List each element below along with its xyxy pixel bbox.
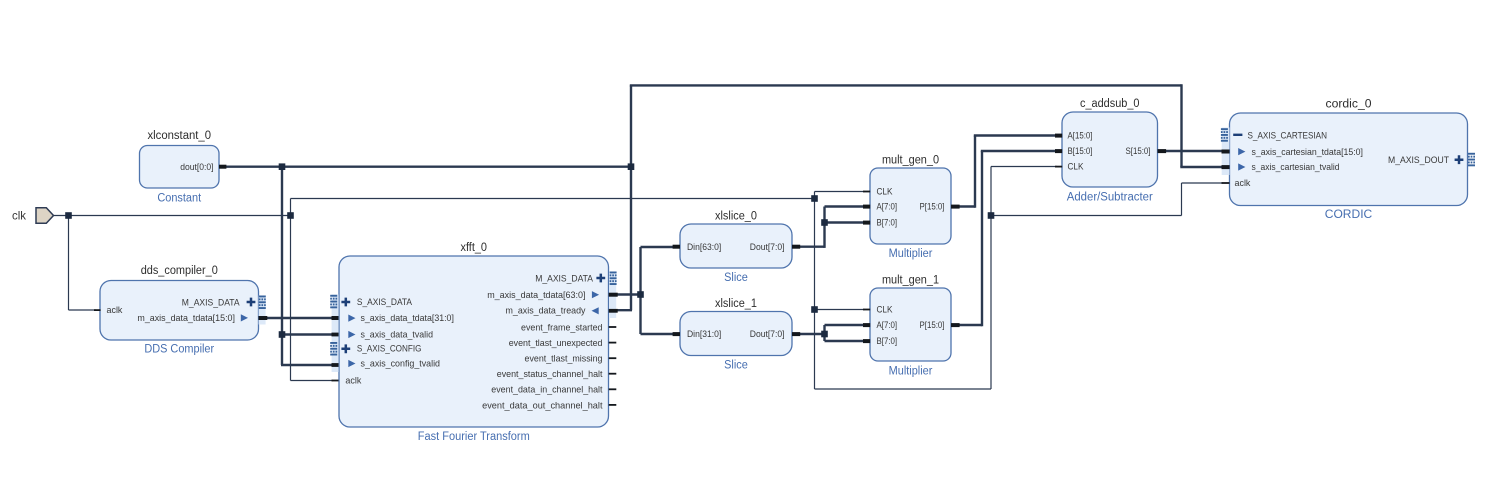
pin stub s_axis_data_tdata[31:0]	[332, 316, 339, 320]
pin stub A[7:0] (mult_gen_0)	[863, 205, 870, 209]
svg-text:mult_gen_0: mult_gen_0	[882, 155, 939, 167]
svg-text:B[15:0]: B[15:0]	[1068, 145, 1093, 156]
pin stub dout[0:0]	[219, 165, 226, 169]
collapse icon plus S_AXIS_CONFIG	[341, 344, 350, 353]
interface expand icon M_AXIS_DOUT	[1468, 153, 1475, 166]
input direction arrow s_axis_cartesian_tvalid	[1238, 163, 1245, 170]
wire net dout branch to xfft s_axis_data_tvalid	[282, 333, 333, 335]
svg-text:CORDIC: CORDIC	[1325, 209, 1373, 221]
junction net dout at (282,166.7)	[279, 163, 286, 170]
junction net dout at (631,166.7)	[628, 163, 635, 170]
svg-text:M_AXIS_DATA: M_AXIS_DATA	[182, 296, 240, 307]
IP block xlconstant_0 body	[140, 146, 220, 189]
wire net clk branch to cordic aclk	[1182, 182, 1224, 184]
expand icon minus S_AXIS_CARTESIAN	[1233, 134, 1242, 136]
svg-text:cordic_0: cordic_0	[1326, 99, 1372, 111]
svg-text:m_axis_data_tdata[63:0]: m_axis_data_tdata[63:0]	[487, 289, 585, 300]
svg-text:P[15:0]: P[15:0]	[920, 201, 945, 212]
svg-text:M_AXIS_DATA: M_AXIS_DATA	[535, 272, 593, 283]
svg-text:aclk: aclk	[107, 304, 123, 315]
pin stub event_tlast_missing	[609, 357, 617, 359]
pin stub CLK (mult_gen_0)	[863, 191, 870, 193]
input direction arrow s_axis_cartesian_tdata	[1238, 148, 1245, 155]
svg-text:S_AXIS_CONFIG: S_AXIS_CONFIG	[357, 343, 422, 354]
svg-text:S[15:0]: S[15:0]	[1126, 145, 1151, 156]
svg-text:Slice: Slice	[724, 272, 748, 284]
svg-text:s_axis_data_tvalid: s_axis_data_tvalid	[361, 328, 434, 339]
input direction arrow m_axis_data_tready	[592, 307, 599, 314]
pin stub m_axis_data_tdata[63:0]	[609, 293, 618, 297]
wire net xlslice_1 Dout to riser x=824.5	[798, 333, 825, 335]
svg-text:Constant: Constant	[157, 193, 202, 205]
wire net dout branch to xfft s_axis_config_tvalid	[281, 364, 333, 366]
interface expand icon M_AXIS_DATA (xfft)	[610, 272, 617, 286]
wire net clk branch to mult_gen_1 CLK	[815, 309, 866, 311]
svg-text:aclk: aclk	[345, 374, 361, 385]
pin stub A[15:0] (c_addsub_0)	[1055, 134, 1062, 138]
pin stub event_tlast_unexpected	[609, 342, 617, 344]
IP block xlslice_0 body	[680, 224, 792, 268]
svg-text:Fast Fourier Transform: Fast Fourier Transform	[418, 431, 530, 443]
pin stub CLK (c_addsub_0)	[1055, 166, 1062, 168]
wire net clk vertical x=290.5 (up to y=198.5 rail, down to xfft aclk)	[290, 199, 292, 381]
IP block dds_compiler_0 body	[100, 281, 259, 341]
wire net mult_gen_1 P to riser x=982	[956, 324, 982, 326]
wire net mult_gen_1 P riser x=982	[981, 151, 983, 326]
IP block cordic_0 body	[1230, 113, 1468, 206]
wire net dout vertical x=1181.5 down to cordic s_axis_cartesian_tvalid	[1180, 84, 1182, 167]
svg-text:S_AXIS_CARTESIAN: S_AXIS_CARTESIAN	[1248, 130, 1328, 141]
svg-text:aclk: aclk	[1235, 177, 1251, 188]
interface pin highlight strip M_AXIS (xfft right)	[609, 272, 616, 319]
svg-text:A[15:0]: A[15:0]	[1068, 130, 1093, 141]
svg-text:CLK: CLK	[1068, 161, 1085, 172]
svg-text:Din[63:0]: Din[63:0]	[687, 241, 721, 252]
junction net xlslice_0 Dout at (824.5,222.5)	[821, 219, 828, 226]
pin stub aclk	[94, 309, 101, 311]
wire net m_axis_data_tdata[15:0] dds to xfft	[263, 317, 333, 319]
svg-text:Multiplier: Multiplier	[889, 366, 933, 378]
wire net m_axis_data_tdata[63:0] branch to xlslice_1 Din	[641, 333, 675, 335]
wire net clk branch to mult_gen_0 CLK	[815, 191, 866, 193]
wire net xlslice_1 Dout riser x=824.5	[823, 325, 825, 341]
output direction arrow m_axis_data_tdata[63:0]	[592, 291, 599, 298]
wire net clk vertical x=814.5	[814, 192, 816, 390]
junction net dout at (282,334.5)	[279, 331, 286, 338]
wire net xlslice_0 Dout branch to mult_gen_0 B[7:0]	[825, 221, 866, 223]
wire net clk branch to c_addsub_0 CLK	[991, 166, 1057, 168]
wire net xlslice_0 Dout branch to mult_gen_0 A[7:0]	[825, 205, 866, 207]
wire net dout branch to cordic s_axis_cartesian_tvalid	[1180, 166, 1223, 168]
wire net xlslice_0 Dout riser x=824.5	[823, 207, 825, 248]
svg-text:Dout[7:0]: Dout[7:0]	[750, 328, 785, 339]
wire net dout top rail y=85	[630, 84, 1182, 86]
svg-text:Adder/Subtracter: Adder/Subtracter	[1067, 192, 1153, 204]
junction net m_axis_data_tdata[63:0] at (640.5,294.5)	[637, 291, 644, 298]
svg-text:c_addsub_0: c_addsub_0	[1080, 98, 1140, 110]
svg-text:xfft_0: xfft_0	[461, 242, 488, 254]
wire net clk vertical x=991 up to c_addsub_0 CLK	[990, 167, 992, 390]
pin stub m_axis_data_tready	[609, 309, 618, 313]
wire net mult_gen_0 P to riser x=975	[956, 205, 975, 207]
wire net dout branch to xfft m_axis_data_tready	[614, 309, 632, 311]
svg-text:event_data_out_channel_halt: event_data_out_channel_halt	[482, 399, 603, 410]
pin stub event_data_out_channel_halt	[609, 404, 617, 406]
wire net mult_gen_0 P riser x=975	[974, 136, 976, 208]
svg-text:event_tlast_missing: event_tlast_missing	[525, 353, 603, 364]
svg-text:S_AXIS_DATA: S_AXIS_DATA	[357, 296, 413, 307]
wire net dout vertical x=631 from top rail down to m_axis_data_tready	[630, 85, 632, 310]
junction net clk at (814.5,198.5)	[811, 195, 818, 202]
svg-text:s_axis_cartesian_tvalid: s_axis_cartesian_tvalid	[1252, 161, 1340, 172]
interface expand icon S_AXIS_CARTESIAN	[1221, 128, 1228, 142]
wire net mult_gen_1 P to c_addsub_0 B[15:0]	[981, 150, 1057, 152]
wire net m_axis_data_tdata[63:0] from xfft to junction	[614, 293, 641, 295]
svg-text:xlslice_1: xlslice_1	[715, 298, 757, 310]
wire net dout horizontal from xlconstant_0 dout to vertical x=631	[222, 165, 631, 167]
junction net clk at (991,215.5)	[988, 212, 995, 219]
pin stub event_data_in_channel_halt	[609, 388, 617, 390]
collapse icon plus M_AXIS_DATA	[247, 298, 256, 307]
wire net clk bottom rail y=389	[815, 388, 992, 390]
wire net clk from port to junction column x=290.5	[53, 215, 291, 217]
svg-text:M_AXIS_DOUT: M_AXIS_DOUT	[1388, 154, 1449, 165]
pin stub Dout[7:0] (xlslice_1)	[792, 332, 800, 336]
interface expand icon S_AXIS_CONFIG	[330, 342, 337, 356]
svg-text:DDS Compiler: DDS Compiler	[144, 344, 214, 356]
svg-text:Din[31:0]: Din[31:0]	[687, 328, 721, 339]
interface pin highlight strip M_AXIS_DATA	[259, 296, 266, 325]
svg-text:CLK: CLK	[877, 304, 894, 315]
pin stub P[15:0] (mult_gen_0)	[951, 205, 960, 209]
junction net xlslice_1 Dout at (824.5,334)	[821, 331, 828, 338]
wire net c_addsub_0 S to cordic s_axis_cartesian_tdata	[1163, 150, 1223, 152]
svg-text:B[7:0]: B[7:0]	[877, 217, 898, 228]
IP block xfft_0 body	[339, 256, 609, 427]
pin stub CLK (mult_gen_1)	[863, 309, 870, 311]
svg-text:event_tlast_unexpected: event_tlast_unexpected	[509, 337, 603, 348]
pin stub aclk (cordic_0)	[1222, 182, 1230, 184]
input direction arrow s_axis_data_tvalid	[348, 331, 355, 338]
wire net mult_gen_0 P to c_addsub_0 A[15:0]	[974, 134, 1057, 136]
wire net m_axis_data_tdata[63:0] branch to xlslice_0 Din	[641, 246, 675, 248]
IP block mult_gen_1 body	[870, 288, 951, 361]
wire net xlslice_0 Dout to riser x=824.5	[798, 245, 825, 247]
pin stub Din[63:0] (xlslice_0)	[673, 245, 680, 249]
wire net clk branch down to dds_compiler_0 aclk	[68, 216, 70, 311]
junction net clk at (290.5,215.5)	[287, 212, 294, 219]
svg-text:s_axis_data_tdata[31:0]: s_axis_data_tdata[31:0]	[361, 312, 454, 323]
collapse icon plus M_AXIS_DOUT	[1455, 155, 1464, 164]
interface pin highlight strip S_AXIS_CARTESIAN	[1222, 128, 1230, 176]
pin stub A[7:0] (mult_gen_1)	[863, 323, 870, 327]
collapse icon plus M_AXIS_DATA (xfft)	[596, 274, 605, 283]
svg-text:s_axis_cartesian_tdata[15:0]: s_axis_cartesian_tdata[15:0]	[1252, 146, 1364, 157]
wire net xlslice_1 Dout branch to mult_gen_1 B[7:0]	[825, 340, 866, 342]
IP block mult_gen_0 body	[870, 168, 951, 244]
svg-text:xlslice_0: xlslice_0	[715, 211, 757, 223]
pin stub aclk (xfft)	[332, 380, 339, 382]
wire net clk branch to xfft aclk	[291, 380, 334, 382]
svg-text:event_data_in_channel_halt: event_data_in_channel_halt	[491, 384, 603, 395]
pin stub event_status_channel_halt	[609, 373, 617, 375]
svg-text:Dout[7:0]: Dout[7:0]	[750, 241, 785, 252]
interface expand icon S_AXIS_DATA	[330, 295, 337, 309]
IP block c_addsub_0 body	[1062, 112, 1158, 187]
svg-text:Multiplier: Multiplier	[889, 248, 933, 260]
svg-text:Slice: Slice	[724, 360, 748, 372]
IP block xlslice_1 body	[680, 312, 792, 356]
junction net clk at (68.5,215.5)	[65, 212, 72, 219]
pin stub B[7:0] (mult_gen_1)	[863, 339, 870, 343]
svg-text:s_axis_config_tvalid: s_axis_config_tvalid	[361, 358, 441, 369]
svg-text:A[7:0]: A[7:0]	[877, 201, 898, 212]
pin stub Dout[7:0] (xlslice_0)	[792, 245, 800, 249]
pin stub B[7:0] (mult_gen_0)	[863, 221, 870, 225]
wire net dout vertical x=282 down to xfft tvalid pins	[281, 166, 283, 365]
pin stub event_frame_started	[609, 326, 617, 328]
pin stub B[15:0] (c_addsub_0)	[1055, 149, 1062, 153]
svg-text:m_axis_data_tready: m_axis_data_tready	[506, 305, 586, 316]
svg-text:mult_gen_1: mult_gen_1	[882, 275, 939, 287]
wire net clk rail y=198.5 toward multipliers	[291, 198, 815, 200]
pin stub Din[31:0] (xlslice_1)	[673, 332, 680, 336]
svg-text:dout[0:0]: dout[0:0]	[180, 161, 213, 172]
svg-text:xlconstant_0: xlconstant_0	[148, 130, 212, 142]
input port clk symbol	[36, 208, 54, 224]
pin stub S[15:0] (c_addsub_0)	[1158, 149, 1167, 153]
wire net xlslice_1 Dout branch to mult_gen_1 A[7:0]	[825, 324, 866, 326]
svg-text:CLK: CLK	[877, 186, 894, 197]
pin stub s_axis_data_tvalid	[332, 333, 339, 337]
pin stub s_axis_cartesian_tdata[15:0]	[1222, 150, 1230, 154]
svg-text:P[15:0]: P[15:0]	[920, 319, 945, 330]
pin stub s_axis_config_tvalid	[332, 363, 339, 367]
interface pin highlight strip S_AXIS (xfft left)	[332, 295, 339, 373]
input direction arrow s_axis_data_tdata	[348, 315, 355, 322]
svg-text:event_frame_started: event_frame_started	[521, 321, 603, 332]
wire net clk rail y=215.5 toward cordic	[991, 215, 1182, 217]
svg-text:dds_compiler_0: dds_compiler_0	[141, 265, 218, 277]
wire net m_axis_data_tdata[63:0] vertical x=640.5	[639, 247, 641, 334]
svg-text:event_status_channel_halt: event_status_channel_halt	[497, 368, 603, 379]
pin stub s_axis_cartesian_tvalid	[1222, 165, 1230, 169]
svg-text:clk: clk	[12, 209, 27, 223]
wire net clk vertical x=1181.5 up to cordic aclk level	[1181, 183, 1183, 216]
collapse icon plus S_AXIS_DATA	[341, 298, 350, 307]
pin stub m_axis_data_tdata[15:0]	[259, 316, 268, 320]
svg-text:A[7:0]: A[7:0]	[877, 319, 898, 330]
pin stub P[15:0] (mult_gen_1)	[951, 323, 960, 327]
input direction arrow s_axis_config_tvalid	[348, 360, 355, 367]
svg-text:B[7:0]: B[7:0]	[877, 335, 898, 346]
junction net clk at (814.5,309.5)	[811, 306, 818, 313]
svg-text:m_axis_data_tdata[15:0]: m_axis_data_tdata[15:0]	[137, 312, 235, 323]
interface expand icon M_AXIS_DATA	[259, 296, 266, 310]
output direction arrow m_axis_data_tdata	[241, 314, 248, 321]
